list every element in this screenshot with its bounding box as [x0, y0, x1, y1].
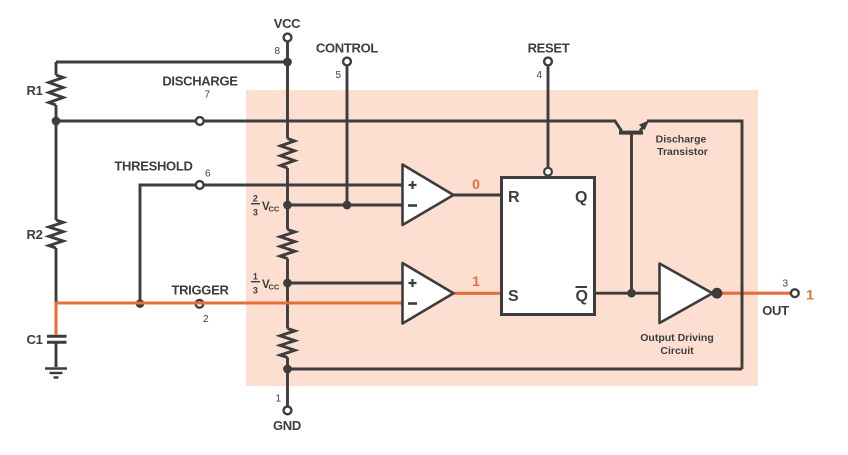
wire R1 branch	[55, 62, 58, 121]
svg-text:THRESHOLD: THRESHOLD	[114, 159, 192, 174]
pin 5 CONTROL terminal	[343, 58, 351, 66]
junction VCC/divider	[283, 58, 292, 67]
junction R1/R2/discharge	[52, 117, 61, 126]
svg-text:DISCHARGE: DISCHARGE	[162, 74, 238, 89]
svg-text:Output Driving: Output Driving	[640, 332, 714, 344]
wire R2 branch	[55, 121, 58, 303]
svg-text:Circuit: Circuit	[660, 345, 694, 357]
resistor divider bottom (internal)	[280, 329, 295, 358]
svg-text:CC: CC	[269, 205, 280, 214]
svg-text:R2: R2	[27, 227, 43, 242]
wire divider vertical	[286, 62, 289, 406]
svg-text:1: 1	[275, 394, 281, 405]
svg-text:8: 8	[274, 46, 280, 57]
label Discharge Transistor	[656, 134, 708, 159]
svg-text:CC: CC	[269, 283, 280, 292]
pin 7 DISCHARGE terminal	[196, 117, 204, 125]
wire THRESHOLD to comparator +	[204, 184, 403, 187]
svg-text:5: 5	[335, 70, 341, 81]
IC body shaded region	[246, 90, 758, 386]
svg-text:CONTROL: CONTROL	[316, 41, 379, 56]
wire DISCHARGE line pin7	[56, 121, 622, 131]
wire 1/3 Vcc to comparator +	[288, 282, 404, 285]
junction threshold-trigger tie	[136, 299, 145, 308]
pin 1 GND terminal	[284, 407, 292, 415]
SR latch U2	[502, 178, 595, 315]
op-amp comparator 2	[403, 263, 454, 324]
svg-text:1: 1	[806, 287, 814, 303]
buffer output driver	[660, 264, 713, 324]
resistor divider top (internal)	[281, 139, 295, 169]
junction control joins 2/3 node	[343, 201, 352, 210]
capacitor C1	[47, 336, 67, 342]
wire RESET pin4 drop	[547, 66, 550, 168]
latch label Qbar	[576, 287, 588, 305]
svg-text:2: 2	[253, 193, 258, 203]
wire comparator2 output to S (orange)	[454, 292, 502, 295]
wire VCC rail top	[56, 61, 288, 64]
svg-text:GND: GND	[273, 418, 301, 433]
reset inversion bubble	[544, 168, 552, 176]
svg-text:Transistor: Transistor	[657, 146, 708, 158]
svg-text:1: 1	[472, 273, 480, 289]
svg-text:OUT: OUT	[762, 303, 789, 318]
junction 2/3 Vcc node	[283, 201, 292, 210]
pin 3 OUT terminal	[791, 289, 799, 297]
resistor R2	[49, 220, 63, 248]
svg-text:Discharge: Discharge	[656, 134, 707, 146]
wire VCC pin8 drop	[286, 42, 289, 63]
pin 2 TRIGGER terminal	[196, 300, 204, 308]
junction Qbar/base	[627, 289, 636, 298]
junction 1/3 Vcc node	[283, 279, 292, 288]
svg-text:2: 2	[203, 314, 209, 325]
svg-text:VCC: VCC	[274, 16, 301, 31]
svg-text:3: 3	[782, 279, 788, 290]
svg-text:0: 0	[472, 176, 480, 192]
svg-text:C1: C1	[27, 332, 43, 347]
pin 4 RESET terminal	[544, 58, 552, 66]
resistor R1	[49, 75, 63, 105]
svg-text:RESET: RESET	[528, 41, 570, 56]
wire bottom ground rail	[288, 368, 743, 371]
wire OUT (orange)	[717, 292, 790, 295]
op-amp comparator 1	[403, 165, 454, 226]
pin 8 VCC terminal	[284, 34, 292, 42]
transistor Q1 base bar	[619, 131, 643, 135]
svg-text:7: 7	[204, 90, 210, 101]
wire Qbar to buffer	[595, 292, 660, 295]
wire 2/3 Vcc to comparator -	[288, 204, 404, 207]
wire CONTROL pin5 drop	[346, 66, 349, 205]
transistor Q1 emitter with arrow	[639, 121, 649, 131]
svg-text:Q: Q	[576, 288, 588, 305]
wire comparator1 output to R	[454, 194, 502, 197]
svg-text:TRIGGER: TRIGGER	[171, 283, 229, 298]
svg-text:R: R	[508, 189, 520, 206]
svg-text:1: 1	[253, 271, 258, 281]
wire emitter to right rail	[647, 121, 742, 369]
label 2/3 Vcc	[251, 193, 280, 217]
label Output Driving Circuit	[640, 332, 714, 357]
wire TRIGGER (orange)	[56, 303, 403, 335]
ground symbol	[45, 369, 67, 378]
svg-text:S: S	[508, 288, 519, 305]
wire C1 to ground	[55, 344, 58, 368]
svg-text:3: 3	[253, 285, 258, 295]
svg-text:3: 3	[253, 207, 258, 217]
svg-text:6: 6	[205, 169, 211, 180]
node output dot	[712, 288, 723, 299]
wire transistor base drop	[630, 134, 633, 293]
label 1/3 Vcc	[251, 271, 280, 295]
wire emitter rail crossing over OUT	[741, 284, 744, 302]
svg-text:R1: R1	[27, 83, 43, 98]
pin 6 THRESHOLD terminal	[196, 181, 204, 189]
wire THRESHOLD left segment + drop to trigger	[140, 185, 195, 303]
junction divider/ground rail	[283, 365, 292, 374]
svg-text:4: 4	[536, 70, 542, 81]
resistor divider middle (internal)	[280, 230, 295, 259]
svg-text:Q: Q	[575, 189, 587, 206]
